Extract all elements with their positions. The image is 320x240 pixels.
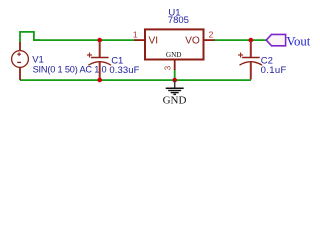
capacitor C2: [238, 41, 262, 80]
port Vout: [266, 34, 285, 45]
svg-text:Vout: Vout: [286, 34, 310, 48]
U1 pin 1: [134, 39, 145, 41]
svg-text:7805: 7805: [168, 15, 189, 26]
svg-text:VI: VI: [149, 35, 159, 46]
svg-text:1: 1: [133, 30, 138, 40]
U1 pin 2: [204, 39, 215, 41]
wire top-left vertical from V1: [20, 32, 40, 43]
svg-text:0.1uF: 0.1uF: [261, 65, 287, 76]
svg-text:SIN(0 1 50) AC 1 0: SIN(0 1 50) AC 1 0: [33, 64, 107, 74]
wire vertical U1 pin 3 to ground node: [174, 70, 176, 81]
wire bottom horizontal: [20, 79, 251, 81]
U1 pin 3: [174, 60, 176, 71]
regulator U1 (7805): [145, 29, 204, 59]
svg-text:VO: VO: [185, 35, 200, 46]
node junction dot C1 bottom: [97, 78, 102, 83]
svg-text:0.33uF: 0.33uF: [109, 65, 139, 76]
wire top from U1 pin 2 to Vout port: [214, 39, 268, 41]
capacitor C1: [87, 41, 111, 79]
svg-text:GND: GND: [166, 51, 182, 59]
node junction dot C2 top: [249, 38, 254, 43]
ground: [166, 80, 184, 94]
node junction dot ground: [172, 78, 177, 83]
wire top horizontal to U1 pin 1: [33, 39, 135, 41]
svg-text:GND: GND: [163, 95, 187, 107]
node junction dot C1 top: [97, 38, 102, 43]
svg-text:3: 3: [163, 65, 172, 70]
svg-text:2: 2: [209, 30, 214, 40]
voltage source V1: [12, 42, 29, 80]
